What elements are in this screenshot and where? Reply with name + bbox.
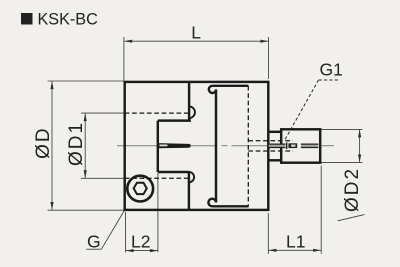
svg-text:G1: G1 xyxy=(320,59,343,79)
svg-text:L: L xyxy=(191,22,201,42)
svg-text:KSK-BC: KSK-BC xyxy=(38,11,99,29)
svg-text:ØD: ØD xyxy=(33,126,54,159)
svg-text:ØD2: ØD2 xyxy=(342,167,363,212)
svg-text:L1: L1 xyxy=(286,231,305,251)
svg-text:L2: L2 xyxy=(131,231,150,251)
svg-text:ØD1: ØD1 xyxy=(66,121,87,166)
svg-text:G: G xyxy=(87,232,101,252)
